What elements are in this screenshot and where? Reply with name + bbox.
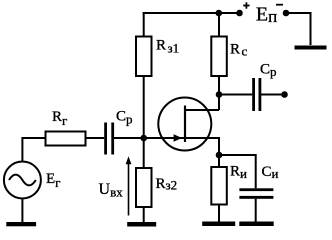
wire rail above Rz1 <box>143 12 145 37</box>
wire gate line from node to transistor <box>144 137 219 139</box>
node dot gate <box>140 135 147 142</box>
wire Rz2 top from gate node <box>143 138 145 168</box>
generator Eg circle <box>4 162 41 199</box>
arrow Uvx head <box>126 156 132 164</box>
svg-text:Си: Си <box>262 164 279 181</box>
resistor Rg <box>46 132 86 146</box>
capacitor Cp input left plate <box>104 123 107 155</box>
resistor Ri <box>211 167 227 205</box>
wire input cap to gate node <box>114 137 144 139</box>
wire Rz2 bottom to ground <box>143 207 145 222</box>
wire output cap to terminal <box>261 94 285 96</box>
capacitor Cp input right plate <box>111 123 114 155</box>
resistor Rc <box>211 37 227 77</box>
ground bar top right <box>295 46 327 50</box>
svg-text:Ср: Ср <box>116 108 133 126</box>
wire Rg to input cap <box>86 137 105 139</box>
minus sign <box>276 4 283 6</box>
wire Ep minus dot to corner <box>286 12 311 14</box>
wire source node to Ri <box>218 155 220 168</box>
node dot drain <box>216 91 223 98</box>
svg-text:Rз1: Rз1 <box>156 38 179 56</box>
generator sine wave <box>9 175 36 186</box>
resistor Rz2 <box>136 168 152 207</box>
capacitor Ci bottom plate <box>239 196 273 199</box>
node dot minus terminal <box>283 10 290 17</box>
wire drain node to output cap <box>219 94 252 96</box>
ground bar Ci <box>239 222 273 227</box>
arrow Uvx line <box>128 160 130 216</box>
wire generator to ground <box>21 199 23 222</box>
wire corner down to top ground <box>310 12 312 45</box>
transistor gate arrowhead <box>174 134 182 141</box>
wire drain horizontal <box>185 109 220 111</box>
svg-text:Rи: Rи <box>230 163 247 180</box>
capacitor Ci top plate <box>239 188 273 191</box>
svg-text:Ср: Ср <box>260 62 277 79</box>
svg-text:Rз2: Rз2 <box>156 176 178 193</box>
svg-text:Еп: Еп <box>256 4 277 27</box>
wire top rail <box>143 12 240 14</box>
svg-text:Uвх: Uвх <box>99 181 124 199</box>
wire Rc top to rail <box>218 12 220 37</box>
ground bar Ri <box>202 222 235 227</box>
wire generator corner horizontal <box>22 137 45 139</box>
wire rail Rz1 bottom to gate node <box>143 76 145 138</box>
node dot top rail junction <box>216 10 223 17</box>
node dot source <box>216 152 223 159</box>
wire Ci branch vertical <box>255 154 257 188</box>
svg-text:Rс: Rс <box>230 42 248 59</box>
wire source node to Ci branch <box>218 154 256 156</box>
capacitor Cp output right plate <box>259 78 262 111</box>
wire source vertical to source node <box>218 137 220 155</box>
wire generator corner vertical <box>21 137 23 161</box>
transistor channel line <box>184 106 186 143</box>
node dot output terminal <box>281 91 288 98</box>
plus sign <box>243 2 249 8</box>
wire Ri bottom to ground <box>218 205 220 223</box>
capacitor Cp output left plate <box>252 78 255 111</box>
transistor VT circle <box>158 98 211 151</box>
node dot plus terminal <box>236 10 243 17</box>
svg-text:Rг: Rг <box>52 109 67 128</box>
wire Ci bottom to ground <box>255 199 257 222</box>
ground bar generator <box>6 222 36 226</box>
ground bar Rz2 <box>127 222 156 227</box>
resistor Rz1 <box>136 37 152 77</box>
wire Rc bottom to drain node to drain lead <box>218 76 220 110</box>
